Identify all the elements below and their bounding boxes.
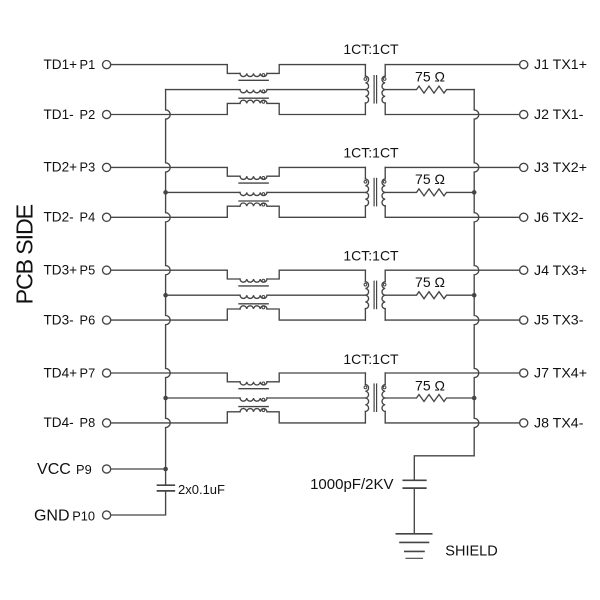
center-tap wire left (bus to transformer) bbox=[166, 294, 240, 296]
center-tap wire left (bus to transformer) bbox=[166, 397, 240, 399]
wire TD4- to choke bbox=[111, 412, 240, 423]
wire J8 TX4- bbox=[385, 422, 519, 424]
svg-text:TD4-: TD4- bbox=[44, 415, 74, 430]
transformer T4 primary bbox=[364, 373, 366, 385]
svg-text:J8 TX4-: J8 TX4- bbox=[534, 416, 584, 432]
svg-text:TD2+: TD2+ bbox=[44, 160, 78, 175]
capacitor 1000pF/2KV bbox=[403, 479, 426, 481]
transformer T4 secondary bbox=[384, 373, 386, 385]
transformer T3 core bbox=[373, 281, 375, 308]
choke winding c (in TD4- leg) bbox=[240, 409, 267, 412]
wire cap to shield ground bbox=[413, 488, 415, 534]
pin J7 TX4+ bbox=[520, 369, 528, 377]
junction resistor R2 bbox=[472, 190, 477, 195]
choke core bar 2 bbox=[239, 200, 268, 202]
choke core bar 1 bbox=[239, 285, 268, 287]
pin P5 (TD3+) bbox=[103, 266, 111, 274]
pin J1 TX1+ bbox=[520, 61, 528, 69]
choke winding c (in TD3- leg) bbox=[240, 306, 267, 309]
resistor R2 75 ohm bbox=[385, 189, 474, 196]
svg-text:P9: P9 bbox=[76, 462, 92, 477]
wire TD3- to choke bbox=[111, 309, 240, 320]
ground (shield) bbox=[396, 533, 431, 535]
pin J6 TX2- bbox=[520, 213, 528, 221]
choke winding a (in TD3+ leg) bbox=[240, 279, 267, 282]
transformer T3 primary bbox=[364, 270, 366, 282]
junction VCC bbox=[163, 467, 168, 472]
svg-text:75 Ω: 75 Ω bbox=[415, 69, 445, 85]
svg-text:TD4+: TD4+ bbox=[44, 365, 78, 380]
choke winding b (in center-tap leg) bbox=[240, 295, 267, 298]
svg-text:TD1-: TD1- bbox=[44, 107, 74, 122]
svg-text:J3 TX2+: J3 TX2+ bbox=[534, 160, 587, 176]
svg-text:P8: P8 bbox=[80, 415, 96, 430]
wire TD1+ to choke bbox=[111, 65, 240, 74]
choke winding a (in TD2+ leg) bbox=[240, 176, 267, 179]
choke winding a (in TD4+ leg) bbox=[240, 382, 267, 385]
wire choke to transformer bottom bbox=[267, 206, 365, 217]
choke core bar 1 bbox=[239, 388, 268, 390]
termination bus (right, to 1000pF) bbox=[414, 90, 479, 481]
wire cap to GND bbox=[111, 491, 166, 515]
svg-text:75 Ω: 75 Ω bbox=[415, 377, 445, 393]
choke core bar 1 bbox=[239, 182, 268, 184]
svg-text:1CT:1CT: 1CT:1CT bbox=[343, 351, 399, 367]
svg-text:2x0.1uF: 2x0.1uF bbox=[178, 482, 225, 497]
wire choke to transformer top bbox=[267, 167, 365, 176]
pin J2 TX1- bbox=[520, 110, 528, 118]
choke winding c (in TD2- leg) bbox=[240, 203, 267, 206]
svg-text:J5 TX3-: J5 TX3- bbox=[534, 313, 584, 329]
capacitor 2x0.1uF bbox=[158, 484, 175, 486]
transformer T2 core bbox=[373, 178, 375, 205]
svg-text:75 Ω: 75 Ω bbox=[415, 171, 445, 187]
choke core bar 2 bbox=[239, 406, 268, 408]
svg-text:TD1+: TD1+ bbox=[44, 57, 78, 72]
svg-text:1000pF/2KV: 1000pF/2KV bbox=[310, 476, 393, 493]
wire J3 TX2+ bbox=[385, 166, 519, 168]
transformer T2 secondary bbox=[384, 167, 386, 179]
svg-text:GND: GND bbox=[34, 508, 70, 525]
wire TD3+ to choke bbox=[111, 270, 240, 279]
pin P9 (VCC) bbox=[103, 465, 111, 473]
junction ct channel 3 bbox=[163, 293, 168, 298]
svg-text:PCB SIDE: PCB SIDE bbox=[12, 204, 38, 304]
junction resistor R3 bbox=[472, 293, 477, 298]
svg-text:P6: P6 bbox=[80, 312, 96, 327]
svg-text:TD2-: TD2- bbox=[44, 210, 74, 225]
resistor R3 75 ohm bbox=[385, 292, 474, 299]
choke winding c (in TD1- leg) bbox=[240, 100, 267, 103]
pin J3 TX2+ bbox=[520, 163, 528, 171]
pin J4 TX3+ bbox=[520, 266, 528, 274]
pin P1 (TD1+) bbox=[103, 61, 111, 69]
wire choke to transformer bottom bbox=[267, 309, 365, 320]
svg-text:J4 TX3+: J4 TX3+ bbox=[534, 263, 587, 279]
pin P7 (TD4+) bbox=[103, 369, 111, 377]
wire choke to transformer top bbox=[267, 373, 365, 382]
wire J7 TX4+ bbox=[385, 372, 519, 374]
svg-text:J2 TX1-: J2 TX1- bbox=[534, 107, 584, 123]
pin P10 (GND) bbox=[103, 511, 111, 519]
choke winding b (in center-tap leg) bbox=[240, 90, 267, 93]
transformer T2 primary bbox=[364, 167, 366, 179]
wire choke to transformer top bbox=[267, 270, 365, 279]
resistor R1 75 ohm bbox=[385, 86, 474, 93]
pin J5 TX3- bbox=[520, 316, 528, 324]
svg-text:P5: P5 bbox=[80, 263, 96, 278]
wire TD4+ to choke bbox=[111, 373, 240, 382]
svg-text:P7: P7 bbox=[80, 365, 96, 380]
junction ct channel 2 bbox=[163, 190, 168, 195]
wire choke to transformer bottom bbox=[267, 103, 365, 114]
resistor R4 75 ohm bbox=[385, 395, 474, 402]
svg-text:P1: P1 bbox=[80, 57, 96, 72]
center-tap bus (left, to VCC decoupling) bbox=[166, 90, 171, 486]
pin P2 (TD1-) bbox=[103, 110, 111, 118]
wire J6 TX2- bbox=[385, 216, 519, 218]
transformer T3 secondary bbox=[384, 270, 386, 282]
svg-text:75 Ω: 75 Ω bbox=[415, 274, 445, 290]
choke core bar 1 bbox=[239, 79, 268, 81]
svg-text:J7 TX4+: J7 TX4+ bbox=[534, 366, 587, 382]
pin P3 (TD2+) bbox=[103, 163, 111, 171]
wire TD1- to choke bbox=[111, 103, 240, 114]
svg-text:P3: P3 bbox=[80, 160, 96, 175]
svg-text:TD3-: TD3- bbox=[44, 312, 74, 327]
svg-text:J6 TX2-: J6 TX2- bbox=[534, 210, 584, 226]
junction ct channel 4 bbox=[163, 396, 168, 401]
choke winding b (in center-tap leg) bbox=[240, 398, 267, 401]
choke core bar 2 bbox=[239, 97, 268, 99]
choke winding b (in center-tap leg) bbox=[240, 192, 267, 195]
pin P6 (TD3-) bbox=[103, 316, 111, 324]
pin P4 (TD2-) bbox=[103, 213, 111, 221]
junction resistor R4 bbox=[472, 396, 477, 401]
transformer T4 core bbox=[373, 384, 375, 411]
svg-text:P4: P4 bbox=[80, 210, 96, 225]
svg-text:TD3+: TD3+ bbox=[44, 263, 78, 278]
wire J5 TX3- bbox=[385, 319, 519, 321]
svg-text:J1 TX1+: J1 TX1+ bbox=[534, 57, 587, 73]
transformer T1 primary bbox=[364, 65, 366, 77]
choke winding a (in TD1+ leg) bbox=[240, 73, 267, 76]
svg-text:VCC: VCC bbox=[37, 461, 71, 478]
svg-text:P2: P2 bbox=[80, 107, 96, 122]
wire J4 TX3+ bbox=[385, 269, 519, 271]
wire J1 TX1+ bbox=[385, 64, 519, 66]
pin J8 TX4- bbox=[520, 419, 528, 427]
center-tap wire left (bus to transformer) bbox=[166, 191, 240, 193]
choke core bar 2 bbox=[239, 303, 268, 305]
transformer T1 secondary bbox=[384, 65, 386, 77]
center-tap wire left (bus to transformer) bbox=[166, 89, 240, 91]
pin P8 (TD4-) bbox=[103, 419, 111, 427]
svg-text:1CT:1CT: 1CT:1CT bbox=[343, 248, 399, 264]
wire choke to transformer top bbox=[267, 65, 365, 74]
wire VCC bbox=[111, 468, 166, 470]
wire J2 TX1- bbox=[385, 114, 519, 116]
svg-text:1CT:1CT: 1CT:1CT bbox=[343, 41, 399, 57]
svg-text:1CT:1CT: 1CT:1CT bbox=[343, 145, 399, 161]
wire TD2+ to choke bbox=[111, 167, 240, 176]
wire choke to transformer bottom bbox=[267, 412, 365, 423]
svg-text:P10: P10 bbox=[72, 509, 95, 524]
wire TD2- to choke bbox=[111, 206, 240, 217]
transformer T1 core bbox=[373, 76, 375, 103]
svg-text:SHIELD: SHIELD bbox=[445, 544, 497, 560]
